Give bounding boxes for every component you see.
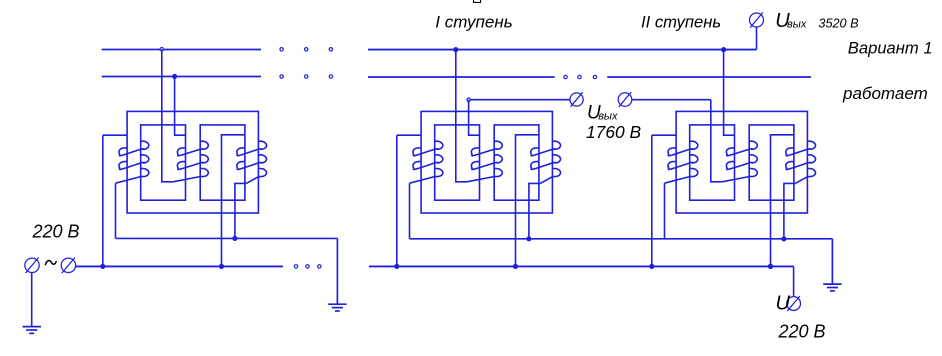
wire T1 HV feed B vertical to center winding top — [175, 76, 186, 135]
wire stage-I output tap to link terminal — [469, 99, 570, 101]
wire supply bus drop to U terminal — [793, 266, 795, 296]
transformer T3 left-leg winding — [665, 141, 698, 183]
terminal link left (U_vyx 1760 V) — [570, 92, 583, 106]
svg-text:U: U — [776, 293, 791, 315]
wire T3 left winding top lead — [652, 134, 676, 136]
wire T3 right winding bottom lead to ground rail — [784, 183, 795, 238]
svg-text:I ступень: I ступень — [435, 12, 512, 31]
transformer T2 core right window — [494, 125, 539, 200]
transformer T1 core right window — [200, 125, 245, 200]
wire ground rail drop right section — [831, 239, 833, 284]
svg-text:работает: работает — [842, 84, 928, 103]
wire ground rail drop left section — [336, 238, 338, 304]
junction T1 wrap wire on supply bus — [100, 264, 105, 269]
wire T1 left winding top lead — [103, 134, 127, 136]
HV bus A left segment — [102, 49, 261, 51]
wire T2 left winding bottom lead down to ground rail — [409, 183, 411, 239]
transformer T1 core outer outline — [127, 111, 258, 213]
svg-text:вых: вых — [787, 19, 807, 31]
transformer T3 core outer outline — [676, 111, 807, 213]
wire T2 right winding bottom lead to ground rail — [529, 183, 540, 238]
HV bus A right segment — [368, 49, 757, 51]
junction T2 right winding bottom on ground rail — [526, 236, 531, 241]
wire T2 HV feed B vertical to center winding top — [469, 100, 480, 136]
wire T3 HV feed A vertical to center winding bottom — [711, 100, 722, 182]
wire T1 HV feed A vertical to center winding bottom — [162, 49, 173, 182]
svg-text:220 В: 220 В — [32, 222, 80, 242]
ground rail right section — [410, 238, 833, 240]
svg-text:Вариант 1: Вариант 1 — [848, 38, 933, 57]
wire T3 outer-left wrap from supply bus to left winding top — [651, 135, 653, 266]
svg-text:220 В: 220 В — [778, 322, 826, 342]
wire T2 right winding top lead from supply bus — [516, 135, 539, 267]
wire output riser to U_vyx 3520 V terminal — [756, 27, 758, 49]
transformer T3 core left window — [690, 125, 735, 200]
junction T2 wrap wire on supply bus — [394, 264, 399, 269]
clipped mark top edge — [474, 0, 481, 2]
wire T1 left winding bottom lead down to ground rail — [115, 183, 117, 238]
transformer T3 right-leg winding — [786, 141, 816, 183]
terminal U 220 V bottom right — [787, 296, 801, 311]
HV bus B left segment — [102, 76, 261, 78]
wire input terminal to ground — [31, 273, 33, 327]
wire T2 HV feed A vertical to center winding bottom — [456, 50, 467, 182]
node tap on bus A left (open junction) — [160, 48, 163, 51]
supply bus left segment (220 V) — [76, 265, 283, 267]
transformer T1 core left window — [141, 125, 186, 200]
wire link terminal to stage-II transformer — [632, 99, 711, 101]
junction T3 right winding bottom on ground rail — [781, 236, 786, 241]
node stage-I output corner (open junction) — [467, 98, 470, 101]
junction bus A to T3 feed — [721, 47, 726, 52]
svg-text:3520 В: 3520 В — [818, 16, 859, 30]
wire T3 right winding top lead from supply bus — [771, 135, 794, 267]
transformer T1 center-leg winding — [173, 141, 208, 182]
svg-text:II ступень: II ступень — [641, 12, 721, 31]
svg-text:1760 В: 1760 В — [586, 122, 641, 142]
wire T3 left winding bottom lead down to ground rail — [664, 183, 666, 239]
wire T1 outer-left wrap from supply bus to left winding top — [102, 135, 104, 266]
HV bus B right segment part 2 — [607, 76, 811, 78]
ground left section — [328, 238, 346, 311]
supply bus right segment — [369, 265, 794, 267]
junction T3 wrap wire on supply bus — [649, 264, 654, 269]
wire T2 left winding top lead — [397, 134, 421, 136]
wire T1 right winding top lead from supply bus — [222, 135, 245, 267]
wire T3 HV feed B vertical to center winding top — [724, 50, 735, 136]
transformer T2 right-leg winding — [531, 141, 561, 183]
terminal 220 V neutral input — [61, 257, 75, 273]
tilde AC symbol — [45, 261, 56, 266]
transformer T1 left-leg winding — [116, 141, 149, 183]
junction T1 right-leg feed on supply bus — [219, 264, 224, 269]
transformer T3 center-leg winding — [722, 141, 757, 182]
transformer T2 core left window — [435, 125, 480, 200]
transformer T3 core right window — [749, 125, 794, 200]
ground rail left section — [116, 237, 338, 239]
bus continuation dots top row — [280, 48, 283, 51]
wire T2 outer-left wrap from supply bus to left winding top — [396, 135, 398, 266]
wire T1 right winding bottom lead to ground rail — [235, 183, 246, 238]
transformer T2 core outer outline — [421, 111, 552, 213]
bus B continuation dots — [564, 75, 567, 78]
transformer T1 right-leg winding — [237, 141, 267, 183]
transformer T2 center-leg winding — [467, 141, 502, 182]
junction T2 right-leg feed on supply bus — [513, 264, 518, 269]
HV bus B right segment part 1 — [368, 76, 555, 78]
terminal 220 V phase input — [25, 257, 39, 273]
transformer T2 left-leg winding — [410, 141, 443, 183]
junction supply bus right drop — [768, 264, 773, 269]
svg-text:вых: вых — [598, 111, 618, 123]
ground input terminal — [23, 273, 41, 334]
junction T1 right winding bottom on ground rail — [232, 236, 237, 241]
terminal output U_vyx 3520 V — [750, 12, 764, 27]
supply bus continuation dots — [294, 265, 297, 268]
bus continuation dots second row — [280, 75, 283, 78]
terminal link right (stage II input) — [618, 92, 632, 107]
ground right section — [823, 239, 841, 291]
junction bus B left to T1 center winding — [172, 74, 177, 79]
junction bus A to T2 feed — [453, 47, 458, 52]
junction T3 right-leg feed on supply bus — [768, 264, 773, 269]
